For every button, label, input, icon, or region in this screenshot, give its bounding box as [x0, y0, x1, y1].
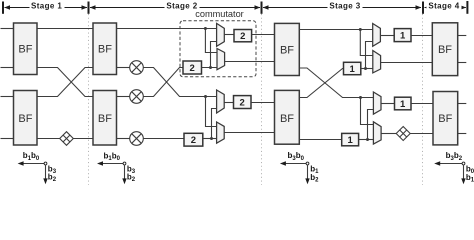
- stage separator dotted line 2: [261, 14, 263, 185]
- header tick 4: [422, 2, 424, 14]
- wire junction up to mux5: [368, 110, 374, 140]
- wire row3 crossover up to commutator A: [143, 68, 183, 97]
- multiplier circle 3: [130, 132, 144, 146]
- svg-text:2: 2: [240, 98, 245, 109]
- svg-text:2: 2: [190, 63, 195, 74]
- junction stage3 B bottom: [366, 138, 369, 141]
- svg-text:2: 2: [191, 135, 196, 146]
- wire register to mux: [361, 68, 374, 70]
- svg-text:1: 1: [400, 31, 406, 42]
- wire mux3 to register: [224, 102, 233, 104]
- svg-text:1: 1: [349, 64, 355, 75]
- register 2 commutator A output: [234, 30, 252, 43]
- wire register to mux: [203, 138, 219, 140]
- wire junction up to mux: [366, 42, 373, 69]
- wire register to BF stage4: [411, 35, 432, 37]
- header tick 2: [88, 2, 90, 14]
- wire row1 stage2 to mux: [117, 28, 217, 30]
- wire row2 crossover down to commutator B: [143, 68, 217, 97]
- register 2 commutator A input: [183, 61, 202, 74]
- butterfly BF stage2 bottom: [93, 91, 117, 146]
- svg-text:BF: BF: [438, 113, 452, 125]
- junction commutator B bottom: [210, 137, 213, 140]
- wire register to BF stage4: [411, 103, 433, 105]
- svg-text:Stage 3: Stage 3: [329, 1, 360, 10]
- wire register to junction: [202, 67, 219, 69]
- register 2 commutator B output: [234, 96, 252, 109]
- junction stage3 A top: [359, 28, 362, 31]
- svg-text:BF: BF: [280, 113, 294, 125]
- svg-text:2: 2: [240, 31, 245, 42]
- butterfly BF stage4 bottom: [433, 92, 458, 145]
- butterfly BF stage3 bottom: [275, 90, 300, 144]
- commutator dashed box: [180, 21, 256, 77]
- output stub B1: [458, 103, 467, 105]
- butterfly BF stage2 top: [93, 23, 117, 75]
- svg-text:BF: BF: [18, 113, 32, 125]
- wire rotator to BF stage2: [73, 138, 93, 140]
- trivial rotator diamond 2: [396, 127, 410, 141]
- svg-text:BF: BF: [280, 44, 294, 56]
- junction commutator B top: [204, 95, 207, 98]
- bit index glyph stage1: [18, 151, 57, 184]
- wire mux4 to BF stage3: [224, 132, 274, 134]
- header tick 1: [2, 2, 4, 14]
- wire row4 to rotator: [37, 138, 60, 140]
- wire junction down to mux: [360, 30, 373, 56]
- output stub A2: [458, 62, 467, 64]
- wire mux2 to BF stage3: [225, 61, 275, 63]
- wire stage2 row4 to multiplier: [117, 138, 131, 140]
- register 1 stage3 A input: [344, 62, 361, 75]
- wire junction down to mux6: [361, 98, 374, 125]
- input wire row3: [1, 96, 14, 98]
- svg-text:1: 1: [347, 135, 353, 146]
- mux stage3 A top: [373, 24, 381, 47]
- mux stage3 B bottom: [373, 122, 381, 144]
- header tick 5: [466, 1, 468, 14]
- junction commutator A top: [204, 27, 207, 30]
- trivial rotator diamond 1: [60, 132, 74, 146]
- mux stage3 B top: [373, 92, 381, 114]
- junction stage3 B top: [359, 96, 362, 99]
- svg-text:Stage 4: Stage 4: [428, 1, 459, 10]
- mux commutator B top: [217, 90, 225, 113]
- svg-text:commutator: commutator: [195, 9, 244, 19]
- wire mux1 to register: [224, 34, 234, 36]
- bit index glyph stage2: [97, 151, 136, 184]
- wire row1 stage1 to stage2: [37, 28, 93, 30]
- wire register to BF stage3: [251, 102, 275, 104]
- mux stage3 A bottom: [373, 51, 381, 73]
- svg-text:1: 1: [400, 99, 406, 110]
- mux commutator A bottom: [217, 49, 225, 70]
- wire rotator to BF stage4: [410, 133, 433, 135]
- stage 3 span arrow: [263, 7, 421, 9]
- label Stage 1: [30, 2, 65, 11]
- input wire row4: [1, 138, 14, 140]
- wire stage2 row3 to multiplier: [117, 96, 131, 98]
- label Stage 2: [165, 2, 200, 11]
- svg-text:Stage 1: Stage 1: [31, 1, 62, 10]
- butterfly BF stage1 top: [14, 23, 38, 75]
- junction commutator A bottom: [209, 66, 212, 69]
- butterfly BF stage3 top: [275, 23, 300, 75]
- input wire row1: [1, 28, 14, 30]
- register 1 stage3 A output: [394, 29, 411, 42]
- svg-text:BF: BF: [438, 44, 452, 56]
- stage 1 span arrow: [5, 7, 88, 9]
- wire junction down to mux2: [205, 29, 218, 53]
- mux commutator B bottom: [217, 122, 225, 143]
- butterfly BF stage1 bottom: [14, 91, 38, 146]
- wire junction down to mux4: [206, 97, 217, 127]
- label Stage 4: [427, 2, 462, 11]
- output stub A1: [458, 35, 467, 37]
- stage 4 span arrow: [425, 7, 466, 9]
- multiplier circle 2: [130, 90, 144, 104]
- bit index glyph stage4: [434, 151, 474, 184]
- wire mux to register: [381, 103, 395, 105]
- label Stage 3: [328, 2, 363, 11]
- header tick 3: [261, 2, 263, 14]
- register 2 commutator B input: [184, 133, 203, 146]
- wire junction up to mux3: [212, 109, 217, 139]
- svg-text:Stage 2: Stage 2: [166, 1, 197, 10]
- register 1 stage3 B input: [342, 133, 359, 146]
- register 1 stage3 B output: [395, 97, 412, 110]
- svg-text:BF: BF: [98, 113, 112, 125]
- bit index glyph stage3: [280, 151, 319, 184]
- wire register to BF stage3: [252, 34, 275, 36]
- wire mux to rotator: [381, 133, 396, 135]
- wire stage3 B bottom to register: [299, 139, 341, 141]
- wire mux to register: [380, 35, 394, 37]
- multiplier circle 1: [130, 61, 144, 75]
- stage 2 span arrow: [90, 7, 260, 9]
- wire stage3 crossover up: [299, 69, 343, 98]
- butterfly BF stage4 top: [432, 23, 457, 76]
- wire row2 crossover down: [37, 68, 93, 97]
- wire stage3 top out to mux: [299, 29, 373, 31]
- svg-text:BF: BF: [98, 44, 112, 56]
- wire mux to BF stage4: [381, 62, 433, 64]
- junction stage3 A bottom: [364, 67, 367, 70]
- wire stage2 row2 to multiplier: [117, 67, 131, 69]
- wire stage3 crossover down: [299, 68, 373, 98]
- wire junction up to mux1: [211, 42, 217, 68]
- svg-text:BF: BF: [18, 44, 32, 56]
- wire register to mux: [359, 139, 374, 141]
- wire row3 crossover up: [37, 68, 93, 97]
- output stub B2: [458, 133, 467, 135]
- mux commutator A top: [217, 23, 225, 46]
- input wire row2: [1, 67, 14, 69]
- stage separator dotted line 3: [422, 14, 424, 185]
- wire row4 to register: [143, 138, 184, 140]
- stage separator dotted line 1: [88, 14, 90, 185]
